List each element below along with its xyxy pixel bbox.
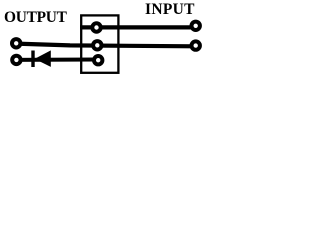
svg-text:OUTPUT: OUTPUT — [4, 9, 68, 26]
svg-text:INPUT: INPUT — [145, 1, 195, 18]
